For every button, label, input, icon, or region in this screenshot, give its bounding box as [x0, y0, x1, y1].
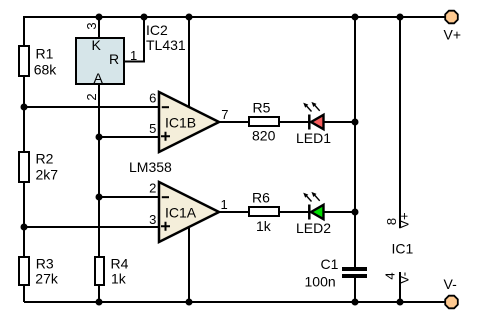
node anode line / pin 5	[96, 134, 103, 141]
svg-text:V-: V-	[444, 276, 458, 292]
wire TL431 ref pin to top rail	[124, 16, 144, 62]
svg-text:27k: 27k	[35, 271, 59, 287]
wire IC1A non-inverting input (pin 3)	[24, 226, 160, 228]
wire right vertical to C1 top	[354, 16, 356, 267]
svg-text:LM358: LM358	[129, 159, 172, 175]
svg-text:1k: 1k	[111, 271, 127, 287]
wire IC1 pin 8 supply stub	[399, 16, 401, 228]
IC1 power symbol labels	[382, 212, 413, 284]
resistor R4	[95, 256, 129, 287]
svg-text:2: 2	[84, 93, 99, 100]
wire left vertical (R1/R2/R3 divider)	[23, 16, 25, 302]
svg-text:820: 820	[252, 128, 276, 144]
terminal V+	[444, 11, 462, 43]
svg-text:IC2: IC2	[146, 22, 168, 38]
svg-text:1k: 1k	[256, 218, 272, 234]
wire TL431 cathode to top rail	[98, 16, 100, 37]
svg-text:3: 3	[84, 22, 99, 29]
wire IC1B inverting input (pin 6)	[24, 106, 160, 108]
resistor R5	[249, 100, 279, 144]
capacitor C1	[305, 256, 368, 290]
svg-text:V+: V+	[396, 212, 411, 228]
svg-text:R6: R6	[252, 190, 270, 206]
wire C1 bottom to bottom rail	[354, 278, 356, 302]
wire IC1 pin 4 supply stub	[399, 272, 401, 302]
svg-text:2: 2	[149, 181, 156, 196]
svg-text:R2: R2	[36, 151, 54, 167]
wire IC1B non-inverting input (pin 5)	[99, 136, 160, 138]
node top rail / LED column	[352, 14, 359, 21]
LED2 (green)	[296, 192, 331, 236]
svg-text:LED1: LED1	[296, 130, 331, 146]
svg-text:1: 1	[130, 48, 137, 63]
resistor R6	[249, 190, 279, 235]
wire IC1B V+ supply drop	[188, 16, 190, 107]
svg-text:100n: 100n	[305, 274, 336, 290]
svg-text:6: 6	[149, 91, 156, 106]
node top rail / IC1B supply	[186, 14, 193, 21]
svg-text:V-: V-	[396, 272, 411, 284]
node bottom rail / pin 4 stub	[397, 299, 404, 306]
svg-text:IC1: IC1	[392, 241, 414, 257]
svg-text:R5: R5	[253, 100, 271, 116]
op-amp IC1B	[149, 91, 228, 153]
svg-text:1: 1	[221, 197, 228, 212]
svg-text:4: 4	[382, 272, 397, 279]
svg-text:V+: V+	[444, 27, 462, 43]
svg-text:R3: R3	[36, 256, 54, 272]
resistor R3	[19, 256, 59, 287]
svg-text:3: 3	[149, 212, 156, 227]
svg-text:7: 7	[221, 107, 228, 122]
IC2 TL431 shunt regulator box	[76, 22, 186, 86]
node bottom rail / C1	[352, 299, 359, 306]
node R2-R3 to pin 3	[21, 224, 28, 231]
node bottom rail / R4	[96, 299, 103, 306]
wire IC1A output row through R6 and LED2	[219, 211, 355, 213]
node R1-R2 to pin 6	[21, 104, 28, 111]
svg-text:K: K	[92, 37, 102, 53]
wire IC1B output row through R5 and LED1	[219, 121, 355, 123]
svg-text:R: R	[109, 51, 119, 67]
node anode line / pin 2	[96, 194, 103, 201]
svg-text:5: 5	[149, 121, 156, 136]
wire bottom rail V-	[24, 301, 445, 303]
wire top rail V+	[24, 16, 445, 18]
svg-text:R1: R1	[36, 46, 54, 62]
resistor R1	[19, 46, 57, 78]
svg-text:IC1A: IC1A	[165, 205, 197, 221]
svg-text:68k: 68k	[34, 62, 58, 78]
node LED1 / right column	[352, 119, 359, 126]
svg-text:LED2: LED2	[296, 220, 331, 236]
wire TL431 anode down through R4 to bottom rail	[98, 85, 100, 302]
svg-text:C1: C1	[321, 256, 339, 272]
node top rail / K	[96, 14, 103, 21]
op-amp IC1A	[149, 181, 228, 243]
node top rail / R	[141, 14, 148, 21]
node bottom rail / IC1A supply	[186, 299, 193, 306]
svg-text:R4: R4	[111, 256, 129, 272]
svg-text:IC1B: IC1B	[165, 115, 196, 131]
LED1 (red)	[296, 102, 331, 146]
svg-text:TL431: TL431	[146, 37, 186, 53]
wire IC1A V- supply drop	[188, 228, 190, 302]
node LED2 / right column	[352, 209, 359, 216]
node top rail / pin 8 stub	[397, 14, 404, 21]
wire IC1A inverting input (pin 2)	[99, 196, 160, 198]
svg-text:2k7: 2k7	[36, 167, 59, 183]
resistor R2	[19, 151, 58, 183]
terminal V-	[444, 276, 458, 308]
svg-text:A: A	[94, 70, 104, 86]
